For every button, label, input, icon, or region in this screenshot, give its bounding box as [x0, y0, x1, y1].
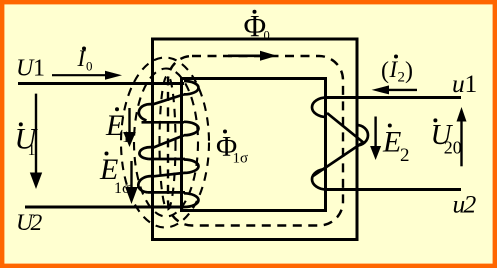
- svg-text:1: 1: [33, 56, 45, 82]
- turn 2 right arc: [184, 122, 199, 135]
- svg-text:2: 2: [31, 210, 43, 236]
- voltage U20 arrow (up): [457, 107, 467, 166]
- secondary wire behind leg (upper): [327, 113, 364, 143]
- turn 5 right arc: [184, 193, 198, 207]
- svg-text:2: 2: [464, 190, 477, 219]
- svg-text:0: 0: [264, 29, 270, 43]
- turn 1 right arc: [184, 81, 199, 94]
- svg-text:): ): [405, 58, 413, 84]
- label Phi1sigma with dot: [216, 130, 248, 167]
- label U20 with dot: [431, 118, 462, 157]
- label E1sigma with dot: [99, 152, 131, 198]
- turn 2 crossing wire: [142, 121, 185, 124]
- secondary wire behind leg (lower): [313, 143, 362, 176]
- emf E1 arrow (down): [123, 108, 136, 147]
- wire U1 terminal: [18, 82, 184, 85]
- primary winding W1: [138, 81, 198, 207]
- turn 3 right arc: [184, 160, 199, 173]
- label u1 (terminal): [452, 69, 477, 98]
- turn 4 wire behind leg: [154, 173, 185, 176]
- secondary turn 2 left arc: [312, 169, 327, 190]
- emf E1sigma arrow (down): [125, 161, 138, 204]
- turn 1 left arc: [139, 104, 153, 120]
- svg-text:(: (: [381, 58, 389, 84]
- turn 4 crossing wire: [148, 191, 186, 194]
- label Phi0 with dot: [244, 8, 270, 43]
- turn 3 left arc: [139, 147, 153, 159]
- svg-text:1σ: 1σ: [233, 151, 249, 167]
- wire u1 terminal: [326, 96, 461, 99]
- flux loop Phi0 (dashed rounded rect in core): [168, 56, 343, 226]
- leakage flux outer ellipse: [121, 58, 209, 228]
- svg-text:1σ: 1σ: [114, 180, 131, 197]
- core inner rectangle (window): [182, 79, 326, 211]
- label I0 with dot: [77, 46, 93, 74]
- svg-text:20: 20: [444, 138, 462, 158]
- svg-text:0: 0: [86, 59, 93, 74]
- turn 4 left arc: [138, 176, 153, 192]
- svg-text:1: 1: [465, 69, 478, 98]
- flux Phi0 direction arrow: [228, 51, 277, 61]
- svg-text:1: 1: [28, 142, 36, 159]
- wire U2 terminal: [25, 206, 184, 209]
- voltage U1 arrow (down): [30, 94, 42, 189]
- label E1 with dot: [105, 107, 130, 146]
- label U1 phasor with dot: [15, 122, 39, 159]
- leakage flux inner narrow loop: [160, 76, 176, 210]
- label U2 (terminal): [16, 210, 43, 236]
- core outer rectangle: [153, 39, 358, 240]
- wire u2 terminal: [326, 188, 461, 191]
- leakage flux middle ellipse: [134, 69, 198, 217]
- current I0 arrow: [52, 71, 122, 80]
- label U1 (terminal): [16, 56, 45, 82]
- label E2 with dot: [382, 124, 410, 167]
- secondary winding W2: [312, 98, 368, 190]
- svg-text:u: u: [452, 69, 465, 98]
- turn 3 crossing wire: [149, 158, 186, 161]
- turn 2 wire behind leg: [154, 135, 185, 147]
- svg-text:E: E: [382, 126, 401, 159]
- current I2 arrow (left): [372, 85, 417, 94]
- emf E2 arrow (down): [370, 117, 381, 161]
- label (I2) with dot: [381, 55, 413, 86]
- svg-text:2: 2: [400, 145, 410, 166]
- turn 1 wire behind leg: [153, 94, 184, 104]
- svg-text:1: 1: [122, 129, 130, 146]
- secondary turn 1 left arc: [312, 98, 327, 118]
- label u2 (terminal): [453, 190, 477, 219]
- svg-text:2: 2: [398, 69, 406, 85]
- secondary right arc: [357, 125, 369, 146]
